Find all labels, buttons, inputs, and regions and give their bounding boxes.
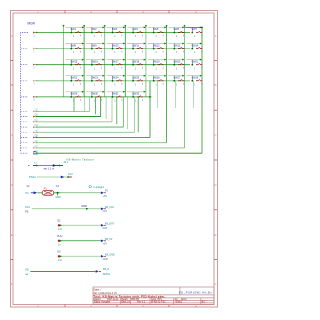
svg-text:SW3: SW3	[112, 28, 118, 31]
sheet pin arrow G	[101, 255, 106, 258]
wire H	[30, 270, 95, 272]
svg-text:SW25: SW25	[132, 77, 139, 80]
svg-text:J2.1: J2.1	[64, 161, 69, 164]
wire column COL6	[166, 25, 168, 143]
svg-text:F: F	[11, 282, 13, 286]
svg-text:KD: KD	[25, 267, 29, 271]
svg-text:E: E	[11, 233, 13, 237]
sheet pin arrow A	[53, 164, 59, 167]
wire drop right B	[193, 81, 195, 108]
labels D right	[103, 206, 115, 213]
wire return D6	[37, 142, 167, 144]
frame zone ticks and labels	[11, 11, 218, 308]
connector pin X1 cable row	[28, 165, 38, 167]
wire column COL7	[184, 25, 186, 148]
sheet pin arrow C-right	[101, 192, 106, 195]
svg-text:KB_CLK: KB_CLK	[105, 206, 115, 209]
wire F	[61, 240, 101, 242]
wire E	[61, 224, 101, 226]
switch SW2	[86, 26, 105, 38]
svg-text:SW31: SW31	[112, 93, 119, 96]
label C right	[103, 190, 109, 198]
diode DG row	[57, 251, 62, 262]
svg-text:ED_PUR(SW) 84_Bx: ED_PUR(SW) 84_Bx	[179, 290, 212, 294]
sheet pin arrow C-left	[31, 191, 37, 194]
svg-text:B: B	[11, 83, 13, 87]
junction node C	[54, 192, 61, 199]
svg-text:E: E	[214, 233, 216, 237]
svg-text:SW19: SW19	[153, 60, 160, 63]
switch SW1	[66, 26, 85, 38]
switch SW14	[187, 43, 203, 55]
diode DE row	[57, 220, 62, 231]
wire return D1	[37, 97, 101, 117]
svg-text:SW14: SW14	[192, 44, 199, 47]
wire return D3	[37, 97, 123, 127]
node row5 end junction	[149, 96, 151, 98]
svg-text:SW22: SW22	[71, 77, 78, 80]
wire row ROW3	[37, 64, 190, 66]
svg-text:SW23: SW23	[91, 77, 98, 80]
svg-text:KB_D: KB_D	[103, 268, 110, 271]
fuse F1	[37, 187, 53, 196]
svg-text:SW16: SW16	[91, 60, 98, 63]
svg-text:SW18: SW18	[132, 60, 139, 63]
sheet pin arrow F	[101, 240, 106, 243]
svg-text:Datei: /: Datei: /	[94, 288, 102, 291]
switch SW5	[148, 26, 167, 38]
wire drop right C	[157, 81, 159, 108]
wire column COL2	[83, 25, 85, 97]
wire column COL1	[63, 25, 65, 97]
svg-text:SW26: SW26	[153, 77, 160, 80]
switch SW31	[107, 91, 126, 103]
label KCLK left	[25, 205, 31, 214]
wire return D5	[37, 81, 150, 138]
svg-text:SW1: SW1	[71, 28, 77, 31]
switch SW4	[127, 26, 146, 38]
junction label GND mid D	[81, 204, 88, 210]
wire drop4	[105, 97, 107, 119]
sheet pin arrow D	[101, 208, 106, 211]
svg-text:GND: GND	[33, 154, 38, 156]
pin P9 return entry D3	[33, 124, 38, 128]
pin P3 row entry	[33, 64, 37, 70]
wire return D8	[37, 152, 202, 154]
pin P8 return entry D2	[33, 119, 38, 123]
pin P2 row entry	[33, 48, 37, 54]
svg-text:Status: Ausgabe: Status: Ausgabe	[94, 301, 111, 304]
svg-text:wh 1.1 m: wh 1.1 m	[44, 167, 55, 171]
svg-text:P2: P2	[25, 191, 29, 195]
wire return D4	[37, 97, 135, 132]
switch SW22	[66, 75, 85, 87]
wire cable A	[37, 165, 59, 167]
svg-text:Bearb:: Bearb:	[121, 298, 128, 301]
svg-text:SW20: SW20	[174, 60, 181, 63]
connector J1 dashed boundary	[21, 33, 29, 154]
wire drop right A	[175, 81, 177, 108]
labels F right	[103, 238, 113, 246]
wire drop7	[137, 97, 139, 132]
svg-text:Norm: Norm	[181, 298, 187, 301]
svg-text:C-integra: C-integra	[93, 185, 104, 189]
sheet pin arrow H	[96, 270, 101, 273]
svg-text:SW21: SW21	[192, 60, 199, 63]
pin P13 return entry D7	[33, 145, 38, 149]
switch SW15	[66, 59, 85, 71]
title block	[93, 287, 214, 305]
pin P11 return entry D5	[33, 135, 38, 139]
wire row ROW1	[37, 32, 190, 34]
svg-text:SW4: SW4	[132, 28, 138, 31]
pin P5 row entry	[33, 96, 37, 102]
switch SW27	[169, 75, 185, 87]
svg-text:SW10: SW10	[112, 44, 119, 47]
svg-text:KB_5V: KB_5V	[105, 238, 113, 241]
labels H right	[103, 268, 111, 276]
svg-text:DAT: DAT	[103, 227, 108, 230]
svg-text:SW30: SW30	[91, 93, 98, 96]
sheet pin arrow B	[61, 176, 65, 179]
svg-text:KCL: KCL	[25, 205, 31, 209]
wire D	[32, 208, 101, 210]
svg-text:SW2: SW2	[91, 28, 97, 31]
svg-text:SW5: SW5	[153, 28, 159, 31]
svg-text:DATA1: DATA1	[103, 273, 111, 276]
svg-text:+5V: +5V	[103, 242, 108, 245]
svg-text:SW27: SW27	[174, 77, 181, 80]
switch SW24	[107, 75, 126, 87]
ground	[33, 152, 38, 156]
wire return D2	[37, 97, 112, 122]
switch SW10	[107, 43, 126, 55]
svg-text:SW13: SW13	[174, 44, 181, 47]
svg-text:B: B	[214, 83, 216, 87]
switch SW32	[127, 91, 146, 103]
svg-text:W-KB-01-PS2: W-KB-01-PS2	[151, 302, 166, 304]
pin P10 return entry D4	[33, 129, 38, 133]
svg-text:A: A	[11, 34, 13, 38]
switch SW28	[187, 75, 203, 87]
svg-text:KB_GND: KB_GND	[105, 253, 115, 256]
pin P14 return entry D8	[33, 150, 38, 154]
svg-text:PS2.k: PS2.k	[29, 175, 37, 179]
sheet pin arrow E	[101, 224, 106, 227]
wire column COL3	[104, 25, 106, 97]
pin P12 return entry D6	[33, 140, 38, 144]
switch SW19	[148, 59, 167, 71]
wire drop3	[94, 97, 96, 114]
wire column COL5	[145, 25, 147, 97]
switch SW29	[66, 91, 85, 103]
svg-text:Rev 0.1: Rev 0.1	[137, 302, 146, 304]
switch SW18	[127, 59, 146, 71]
svg-text:SW6: SW6	[174, 28, 180, 31]
wire drop5	[116, 97, 118, 124]
wire return D7	[37, 147, 185, 149]
svg-text:Titel: KB-Matrix Tastatur einh: Titel: KB-Matrix Tastatur einh. PS2-Kabe…	[93, 295, 165, 299]
wire row ROW5	[37, 96, 152, 98]
svg-text:SW11: SW11	[132, 44, 139, 47]
switch SW6	[169, 26, 185, 38]
labels G right	[103, 253, 115, 261]
pin P6 return entry D0	[33, 109, 38, 113]
labels E right	[103, 222, 115, 230]
svg-text:SW12: SW12	[153, 44, 160, 47]
svg-text:SW29: SW29	[71, 93, 78, 96]
switch SW25	[127, 75, 146, 87]
svg-text:SW17: SW17	[112, 60, 119, 63]
svg-text:+SW01: +SW01	[175, 302, 183, 304]
switch SW16	[86, 59, 105, 71]
label KD left	[25, 267, 29, 276]
switch SW7	[187, 26, 203, 38]
svg-text:SW24: SW24	[112, 77, 119, 80]
switch SW13	[169, 43, 185, 55]
switch SW17	[107, 59, 126, 71]
svg-text:KB-Matrix Tastatur: KB-Matrix Tastatur	[67, 157, 95, 161]
wire G	[61, 255, 101, 257]
svg-text:SW7: SW7	[192, 28, 198, 31]
switch SW26	[148, 75, 167, 87]
pin P1 row entry	[33, 32, 37, 38]
svg-text:A: A	[214, 34, 216, 38]
switch SW3	[107, 26, 126, 38]
switch SW20	[169, 59, 185, 71]
svg-text:GND: GND	[81, 204, 87, 208]
wire drop1	[73, 97, 75, 112]
switch SW23	[86, 75, 105, 87]
switch SW11	[127, 43, 146, 55]
wire C	[61, 192, 101, 194]
wire drop6	[127, 97, 129, 129]
component J3 pin	[67, 172, 73, 178]
svg-text:SW15: SW15	[71, 60, 78, 63]
svg-text:SW32: SW32	[132, 93, 139, 96]
svg-text:J3.2: J3.2	[68, 172, 73, 176]
switch SW9	[86, 43, 105, 55]
label C-integra	[89, 185, 104, 189]
svg-text:F: F	[215, 282, 217, 286]
svg-text:MGR: MGR	[28, 21, 36, 25]
svg-text:Blatt 1/1: Blatt 1/1	[121, 301, 130, 304]
wire return D0	[37, 97, 89, 112]
svg-text:GND: GND	[55, 196, 61, 199]
svg-text:KB_DAT: KB_DAT	[105, 222, 115, 225]
svg-text:F1: F1	[44, 187, 48, 191]
svg-text:SW8: SW8	[71, 44, 77, 47]
component U2	[59, 161, 69, 167]
svg-text:Gepr: HJS: Gepr: HJS	[151, 298, 162, 301]
wire column COL4	[124, 25, 126, 97]
pin P4 row entry	[33, 80, 37, 86]
wire row ROW4	[37, 80, 190, 82]
svg-text:Datum:: Datum:	[94, 298, 102, 301]
diode DF row	[57, 235, 63, 246]
svg-text:CLK: CLK	[103, 210, 108, 213]
switch SW12	[148, 43, 167, 55]
svg-text:SW9: SW9	[91, 44, 97, 47]
wire column COL8 right	[185, 27, 203, 154]
switch SW21	[187, 59, 203, 71]
svg-text:+5V: +5V	[103, 195, 108, 198]
wire cable B	[37, 176, 68, 178]
title block text	[94, 288, 207, 303]
svg-text:SW28: SW28	[192, 77, 199, 80]
switch SW30	[86, 91, 105, 103]
pin P7 return entry D1	[33, 114, 38, 118]
wire drop2	[84, 97, 86, 112]
wire row ROW2	[37, 48, 190, 50]
sheet border frame	[11, 11, 218, 308]
svg-text:B.Ax: B.Ax	[57, 235, 63, 238]
switch SW8	[66, 43, 85, 55]
svg-text:GND: GND	[103, 258, 109, 261]
